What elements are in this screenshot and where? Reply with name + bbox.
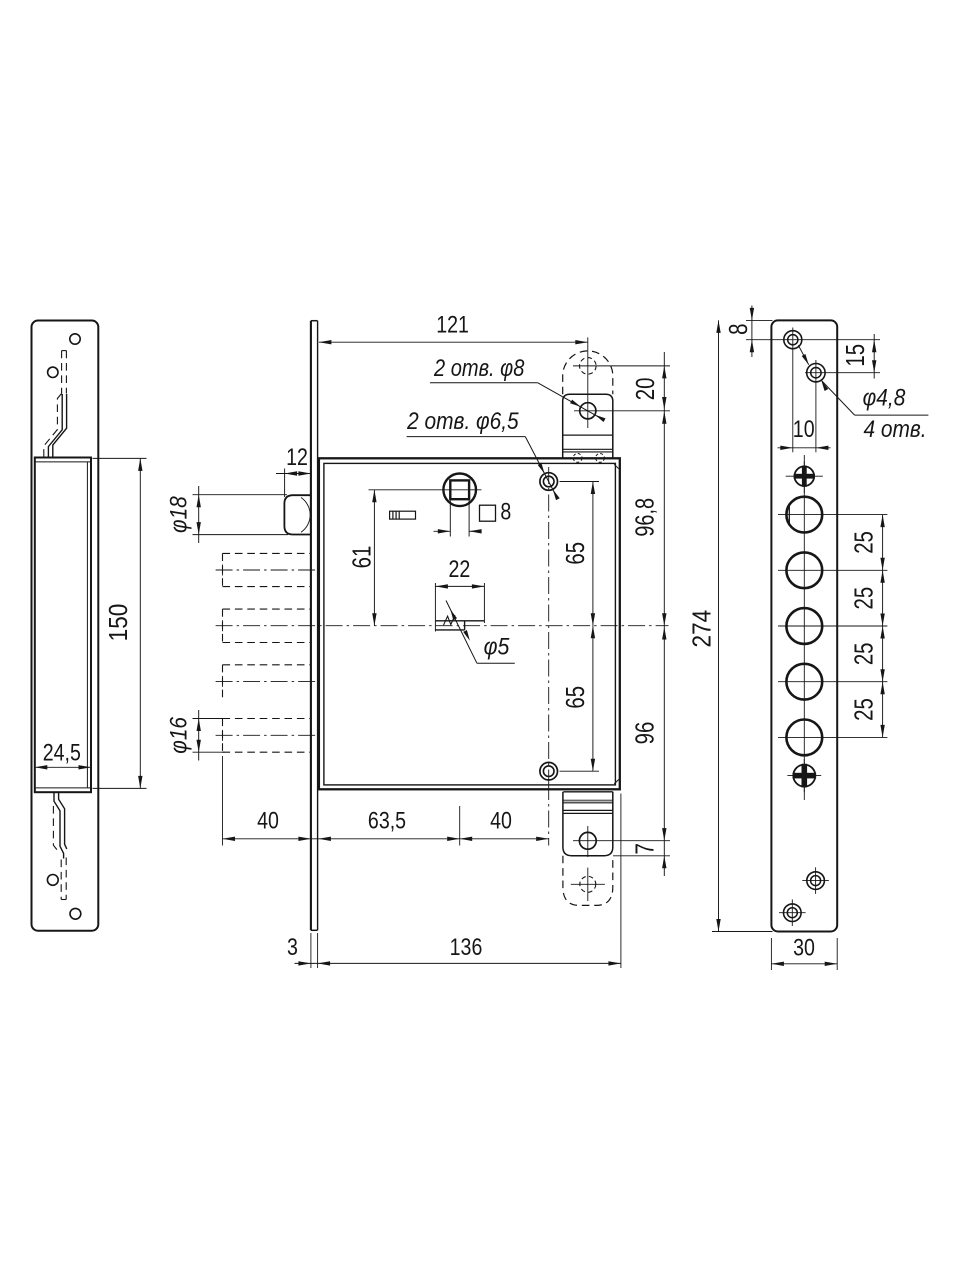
- svg-text:25: 25: [849, 698, 878, 721]
- lower tab hole phi8 solid: [579, 832, 596, 849]
- dimension 3 and 136 line: [295, 962, 621, 964]
- svg-text:24,5: 24,5: [43, 738, 81, 766]
- svg-text:25: 25: [849, 587, 878, 610]
- svg-text:136: 136: [450, 933, 483, 961]
- lower tab hole phi8 hidden with crosshair: [580, 876, 596, 892]
- svg-text:φ4,8: φ4,8: [863, 384, 906, 411]
- lower mounting tab fold lines: [563, 791, 612, 793]
- main horizontal centerline of lock: [216, 625, 669, 627]
- svg-text:96,8: 96,8: [630, 498, 659, 537]
- dimension 22 extension lines: [434, 583, 436, 632]
- lower tab centerline: [587, 826, 589, 857]
- svg-text:10: 10: [793, 415, 815, 443]
- right view: phi4.8 screw hole: [807, 364, 825, 382]
- svg-text:274: 274: [688, 610, 717, 648]
- dimension 12: [276, 473, 311, 475]
- dimension phi18: [198, 486, 200, 543]
- dimension 65 upper: [592, 482, 594, 626]
- dimension 7 arrow and text: [662, 856, 666, 869]
- lower mounting tab solid outline: [563, 792, 613, 856]
- extension line through top screw hole: [746, 339, 880, 341]
- vertical centerline through phi6.5 holes: [548, 467, 550, 783]
- svg-text:25: 25: [849, 643, 878, 666]
- dimension 65 lower extension line: [560, 770, 600, 772]
- svg-text:65: 65: [561, 542, 590, 565]
- chained dimensions 40 / 63,5 / 40 line: [223, 838, 549, 840]
- right view: countersunk screw hole upper: [795, 466, 815, 486]
- dimension 30 extension lines: [770, 938, 772, 970]
- left view: lock case inner wall lines: [35, 461, 91, 463]
- svg-text:7: 7: [630, 843, 659, 854]
- dimension 8 right view: [751, 306, 753, 358]
- dimension 65 upper extension line: [560, 481, 600, 483]
- svg-text:40: 40: [257, 806, 279, 834]
- leader phi5 with arrows: [446, 601, 477, 664]
- left view: screw hole upper-left: [48, 367, 58, 377]
- centre plate edge with phi5 hole detail: [435, 620, 484, 622]
- dimension 274: [718, 320, 720, 931]
- svg-text:φ18: φ18: [164, 496, 192, 533]
- svg-text:65: 65: [561, 686, 590, 709]
- right view: phillips screw hole lower: [793, 765, 815, 787]
- svg-text:150: 150: [105, 604, 134, 642]
- square spindle hole 8mm: [450, 480, 469, 499]
- label 2 holes phi6,5 with leader: [406, 408, 519, 435]
- dimension 12 extension line: [284, 469, 286, 498]
- dimension 121: [319, 341, 588, 343]
- right view: faceplate outline: [771, 320, 837, 931]
- dimension square-8 arrows: [434, 530, 451, 532]
- dimension 61 extension line to spindle center: [369, 489, 482, 491]
- svg-text:2 omв. φ6,5: 2 omв. φ6,5: [406, 408, 519, 435]
- upper tab raised position hidden outline: [563, 351, 613, 394]
- label square 8: [480, 505, 496, 521]
- left view: upper bent strap hidden outline: [62, 350, 67, 352]
- right view: bolt hole phi16 number 1: [786, 497, 822, 533]
- label 2 holes phi8 with leader: [433, 354, 525, 381]
- svg-text:61: 61: [347, 546, 376, 569]
- svg-text:30: 30: [793, 933, 815, 961]
- middle view: latch cylinder face arcs: [301, 498, 310, 533]
- dimension 10: [778, 447, 831, 449]
- middle view: faceplate edge strip: [310, 321, 312, 931]
- dimension 25 chain: [882, 515, 884, 738]
- hidden deadbolt 3 outline (no bottom line in original): [223, 664, 311, 666]
- small slot detail left of spindle: [390, 511, 416, 519]
- svg-text:25: 25: [849, 531, 878, 554]
- svg-text:22: 22: [449, 555, 471, 583]
- svg-text:12: 12: [286, 443, 308, 471]
- left view: flat strap plate outline: [32, 321, 99, 931]
- left view: lower bent strap hidden outline: [53, 806, 58, 852]
- extension lines for right-side dimensions: [573, 365, 670, 367]
- right-side vertical dimension line 20/96.8/96/7: [663, 352, 665, 876]
- right view: bolt hole phi16 number 2: [786, 552, 822, 588]
- middle view: lock case outer outline: [319, 458, 620, 789]
- svg-text:40: 40: [490, 806, 512, 834]
- dimension square-8 extension lines: [449, 501, 451, 537]
- right view: lower screw hole left: [784, 904, 802, 922]
- middle view: lock case inner wall: [324, 463, 616, 785]
- lower tab folded position hidden outline: [563, 856, 613, 906]
- svg-text:8: 8: [500, 497, 511, 525]
- dimension 61: [373, 490, 375, 626]
- left view: lock case side outline: [35, 458, 91, 793]
- right view: bolt hole phi16 number 4: [786, 664, 822, 700]
- extension lines for chained dims: [222, 756, 224, 846]
- svg-text:15: 15: [841, 344, 870, 367]
- dimension 150: [139, 458, 141, 788]
- svg-text:4 omв.: 4 omв.: [863, 415, 926, 442]
- right view: bolt hole phi16 number 5: [786, 720, 822, 756]
- right view: vertical centerline: [803, 455, 805, 800]
- extension lines faceplate bottom down: [310, 933, 312, 968]
- dimension phi16 extension lines: [193, 718, 225, 720]
- svg-text:φ5: φ5: [484, 632, 510, 660]
- left view: upper bent strap visible edges: [48, 394, 62, 458]
- dimension 20 arrows: [662, 366, 666, 379]
- upper tab fold lines: [563, 434, 613, 436]
- svg-text:96: 96: [630, 722, 659, 745]
- upper tab centerline: [587, 337, 589, 428]
- left view: lower bent strap visible edges: [54, 792, 64, 858]
- dimension 22: [435, 585, 484, 587]
- dimension 15: [873, 334, 875, 379]
- hidden deadbolt 2 outline: [223, 608, 311, 610]
- dimension 30: [771, 963, 837, 965]
- svg-text:63,5: 63,5: [368, 806, 406, 834]
- dimension 65 lower: [592, 626, 594, 772]
- left view: screw hole lower-left: [47, 875, 58, 886]
- extension line plate bottom left: [712, 931, 773, 933]
- spindle follower circle: [443, 474, 476, 507]
- right view: lower screw hole right: [807, 872, 825, 890]
- svg-text:121: 121: [436, 310, 469, 338]
- dimension phi16: [198, 710, 200, 761]
- hidden deadbolt 4 phi16 with centerline: [223, 718, 311, 720]
- right view: latch edge chord in hole 1: [788, 504, 790, 525]
- svg-text:φ16: φ16: [164, 717, 192, 754]
- svg-text:20: 20: [631, 378, 660, 401]
- dimension 24,5: [35, 766, 91, 768]
- svg-text:8: 8: [724, 324, 753, 335]
- label phi4,8 4 holes with leader: [798, 345, 808, 365]
- upper tab hidden holes at fold: [573, 454, 582, 463]
- extension line body right edge down: [620, 794, 622, 969]
- right view: top screw hole: [784, 331, 802, 349]
- dimension phi18 extension lines: [193, 494, 288, 496]
- upper tab hole phi8 solid: [580, 403, 596, 419]
- svg-text:3: 3: [287, 933, 298, 961]
- dimension 96 arrows: [662, 627, 666, 640]
- hidden deadbolt 1 (retracted) with centerline: [223, 552, 311, 554]
- middle view: inner corner chamfers: [614, 464, 619, 469]
- upper mounting tab solid outline: [563, 394, 613, 458]
- lower phi6.5 hole: [540, 762, 558, 780]
- upper tab hole phi8 hidden: [580, 358, 597, 375]
- middle view: latch bolt cylinder phi18: [284, 495, 311, 534]
- left view: screw hole top-right: [70, 334, 80, 344]
- dimension 96,8 arrows: [662, 411, 666, 424]
- dimension 150 extension lines: [93, 457, 147, 459]
- right view: bolt hole phi16 number 3: [786, 608, 822, 644]
- svg-text:2 omв. φ8: 2 omв. φ8: [433, 354, 525, 381]
- upper phi6.5 hole: [540, 473, 558, 491]
- left view: screw hole bottom-right: [70, 908, 81, 919]
- extension line plate top left: [746, 319, 773, 321]
- break squiggle on plate edge: [444, 615, 456, 625]
